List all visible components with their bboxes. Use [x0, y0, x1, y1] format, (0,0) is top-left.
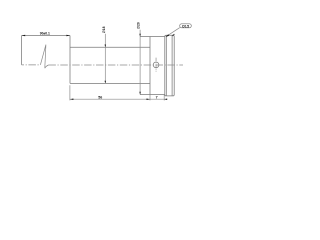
svg-text:56: 56	[98, 95, 102, 99]
svg-text:90±0.1: 90±0.1	[40, 32, 50, 36]
svg-text:∅20: ∅20	[137, 22, 141, 29]
svg-text:7: 7	[156, 95, 158, 99]
svg-text:∅18: ∅18	[102, 26, 106, 33]
svg-text:C0.5: C0.5	[182, 24, 189, 28]
